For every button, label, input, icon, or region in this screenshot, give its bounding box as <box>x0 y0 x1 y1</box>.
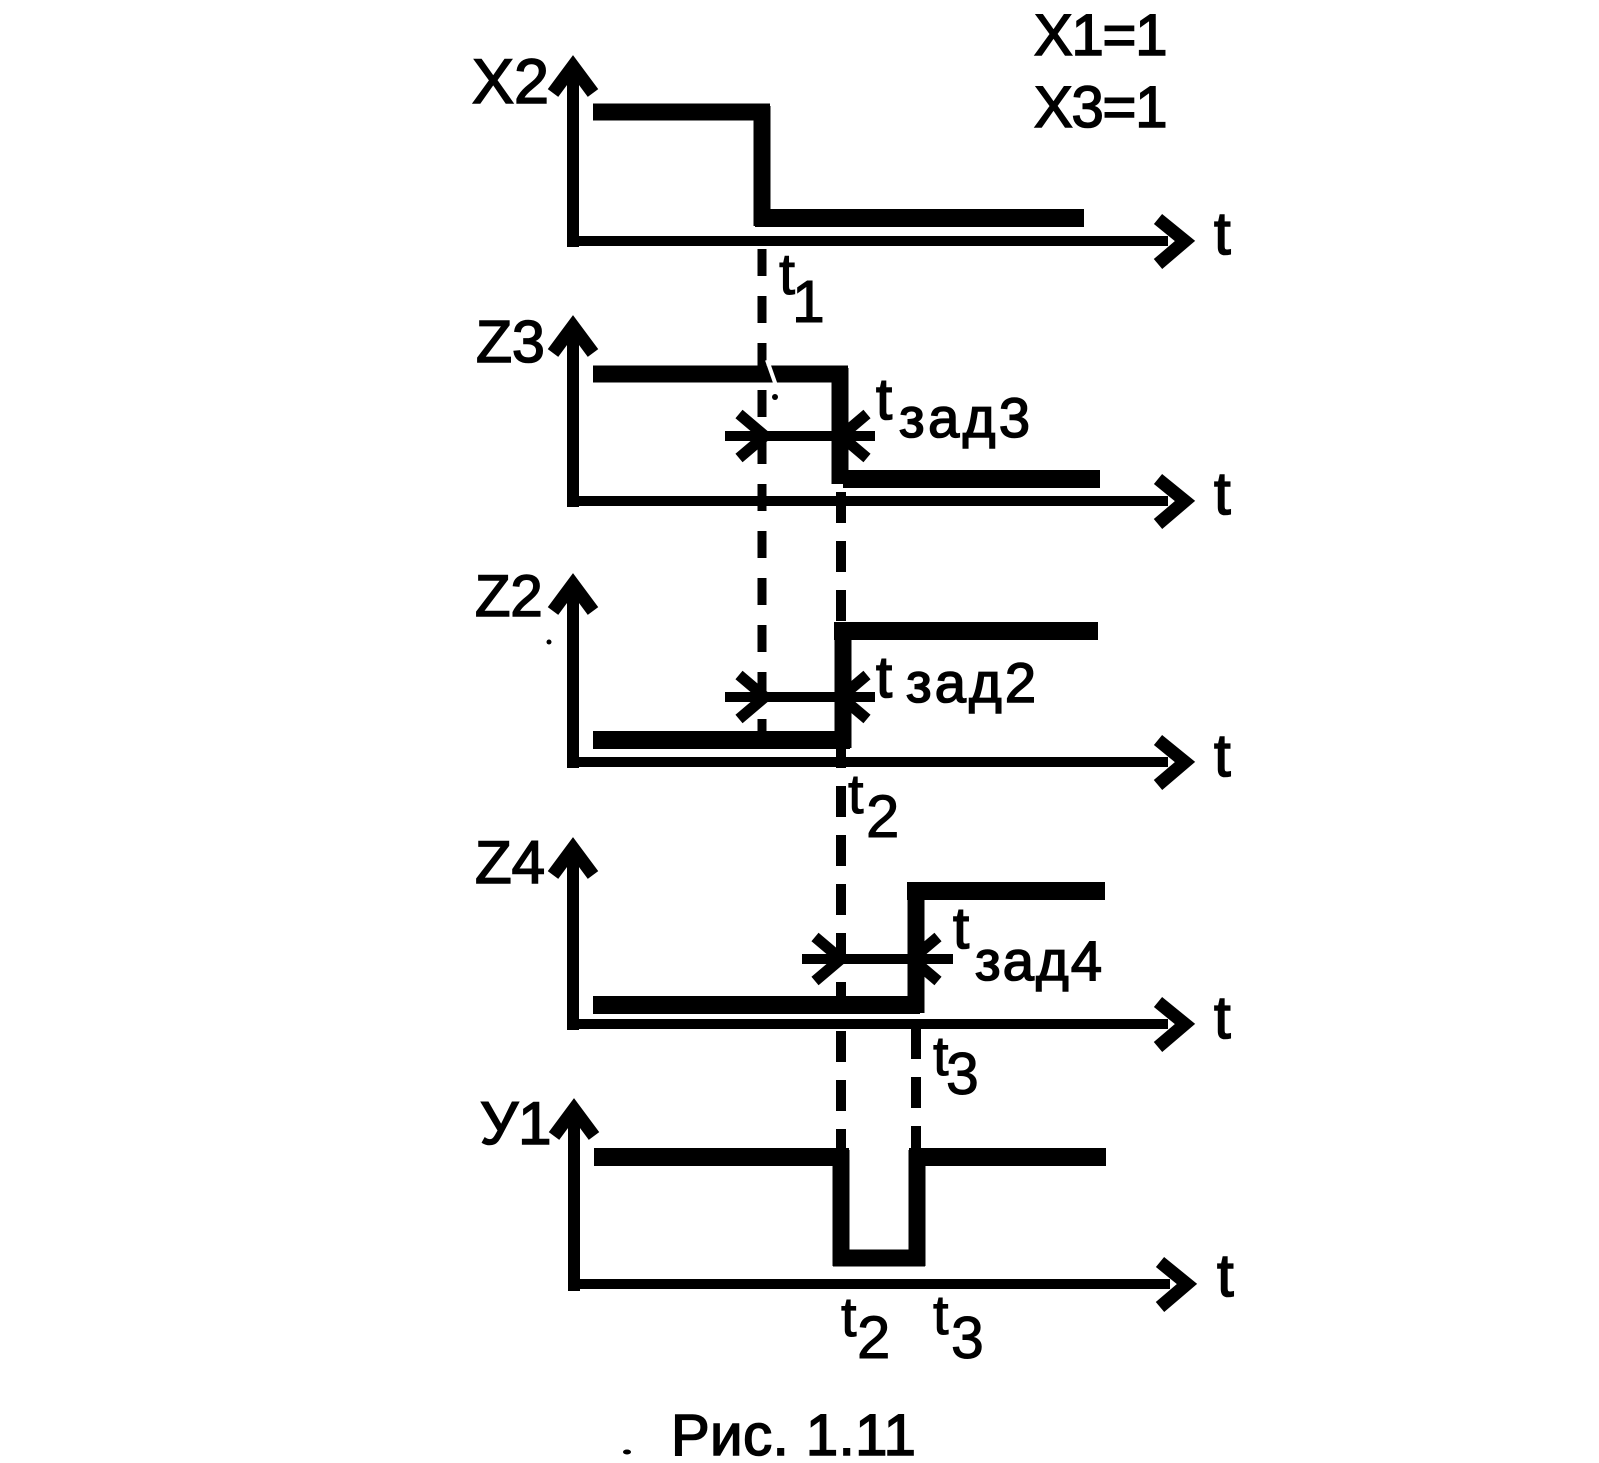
U1 rising edge <box>909 1150 926 1266</box>
dashed marker line t2 <box>836 492 846 1148</box>
U1 trace high left <box>594 1148 849 1166</box>
scan dot artifact <box>772 394 778 400</box>
U1 falling edge <box>833 1150 850 1266</box>
svg-text:Z3: Z3 <box>476 309 545 375</box>
svg-text:2: 2 <box>866 783 899 850</box>
Y axis Z2 <box>567 590 579 768</box>
scan speckle near Z2 axis <box>547 640 552 645</box>
svg-text:X3=1: X3=1 <box>1034 75 1166 140</box>
dimension line Z2 delay <box>725 692 875 702</box>
svg-text:t: t <box>1214 200 1231 267</box>
Z3 trace high <box>593 366 848 383</box>
svg-text:зад2: зад2 <box>906 651 1036 714</box>
svg-text:t: t <box>953 896 969 961</box>
dashed marker line t1 <box>758 249 767 731</box>
Z3 falling edge <box>832 368 849 484</box>
X axis X2 <box>568 236 1168 246</box>
svg-text:t: t <box>933 1283 949 1346</box>
dimension arrowhead left-pointing at t2 <box>841 675 867 719</box>
svg-text:2: 2 <box>857 1304 890 1371</box>
svg-text:Z2: Z2 <box>475 564 543 629</box>
dimension line Z4 delay <box>802 954 953 964</box>
svg-text:X2: X2 <box>472 47 549 117</box>
svg-text:t: t <box>1214 984 1231 1051</box>
svg-text:зад3: зад3 <box>899 386 1030 449</box>
svg-text:зад4: зад4 <box>975 929 1102 992</box>
svg-text:Рис. 1.11: Рис. 1.11 <box>671 1403 916 1463</box>
svg-text:t: t <box>876 645 892 710</box>
Z4 trace high <box>907 882 1105 900</box>
scan crack artifact on Z3 high line <box>767 360 779 394</box>
dimension arrowhead right-pointing at t1 <box>739 675 765 719</box>
dimension arrowhead right-pointing at t1 <box>739 414 765 458</box>
Z2 trace low <box>593 731 850 749</box>
Z2 trace high <box>834 622 1098 640</box>
Z2 rising edge <box>835 634 852 748</box>
svg-text:Z4: Z4 <box>475 829 545 896</box>
X2 falling edge <box>754 106 771 226</box>
svg-text:3: 3 <box>946 1041 979 1107</box>
svg-text:t: t <box>1217 1242 1234 1309</box>
dimension arrowhead right-pointing at t2 <box>815 937 841 981</box>
svg-text:1: 1 <box>792 269 825 335</box>
dimension line Z3 delay <box>725 431 875 441</box>
Z3 trace low <box>843 470 1100 488</box>
svg-text:t: t <box>1214 460 1231 527</box>
svg-text:X1=1: X1=1 <box>1034 3 1166 68</box>
U1 trace low <box>833 1250 925 1267</box>
svg-text:3: 3 <box>951 1305 984 1371</box>
Y axis Z3 <box>567 332 579 507</box>
svg-text:t: t <box>848 762 864 825</box>
X2 trace low <box>755 209 1084 227</box>
svg-text:У1: У1 <box>480 1090 551 1157</box>
dashed marker line t3 <box>911 1028 921 1148</box>
scan speckle near caption <box>623 1450 631 1455</box>
U1 trace high right <box>909 1148 1106 1166</box>
dimension arrowhead left-pointing at t2 <box>841 414 867 458</box>
Y axis X2 <box>567 72 579 247</box>
dimension arrowhead left-pointing at t3 <box>912 937 938 981</box>
Z4 trace low <box>593 996 920 1014</box>
svg-text:t: t <box>841 1285 857 1348</box>
X axis Z3 <box>568 496 1168 506</box>
X axis Z2 <box>568 757 1168 767</box>
X2 trace high <box>593 104 770 121</box>
Y axis U1 <box>568 1115 580 1291</box>
svg-text:t: t <box>1214 722 1231 789</box>
X axis U1 <box>569 1279 1170 1289</box>
Y axis Z4 <box>567 854 579 1030</box>
X axis Z4 <box>568 1019 1168 1029</box>
Z4 rising edge <box>908 894 925 1013</box>
svg-text:t: t <box>876 367 892 432</box>
